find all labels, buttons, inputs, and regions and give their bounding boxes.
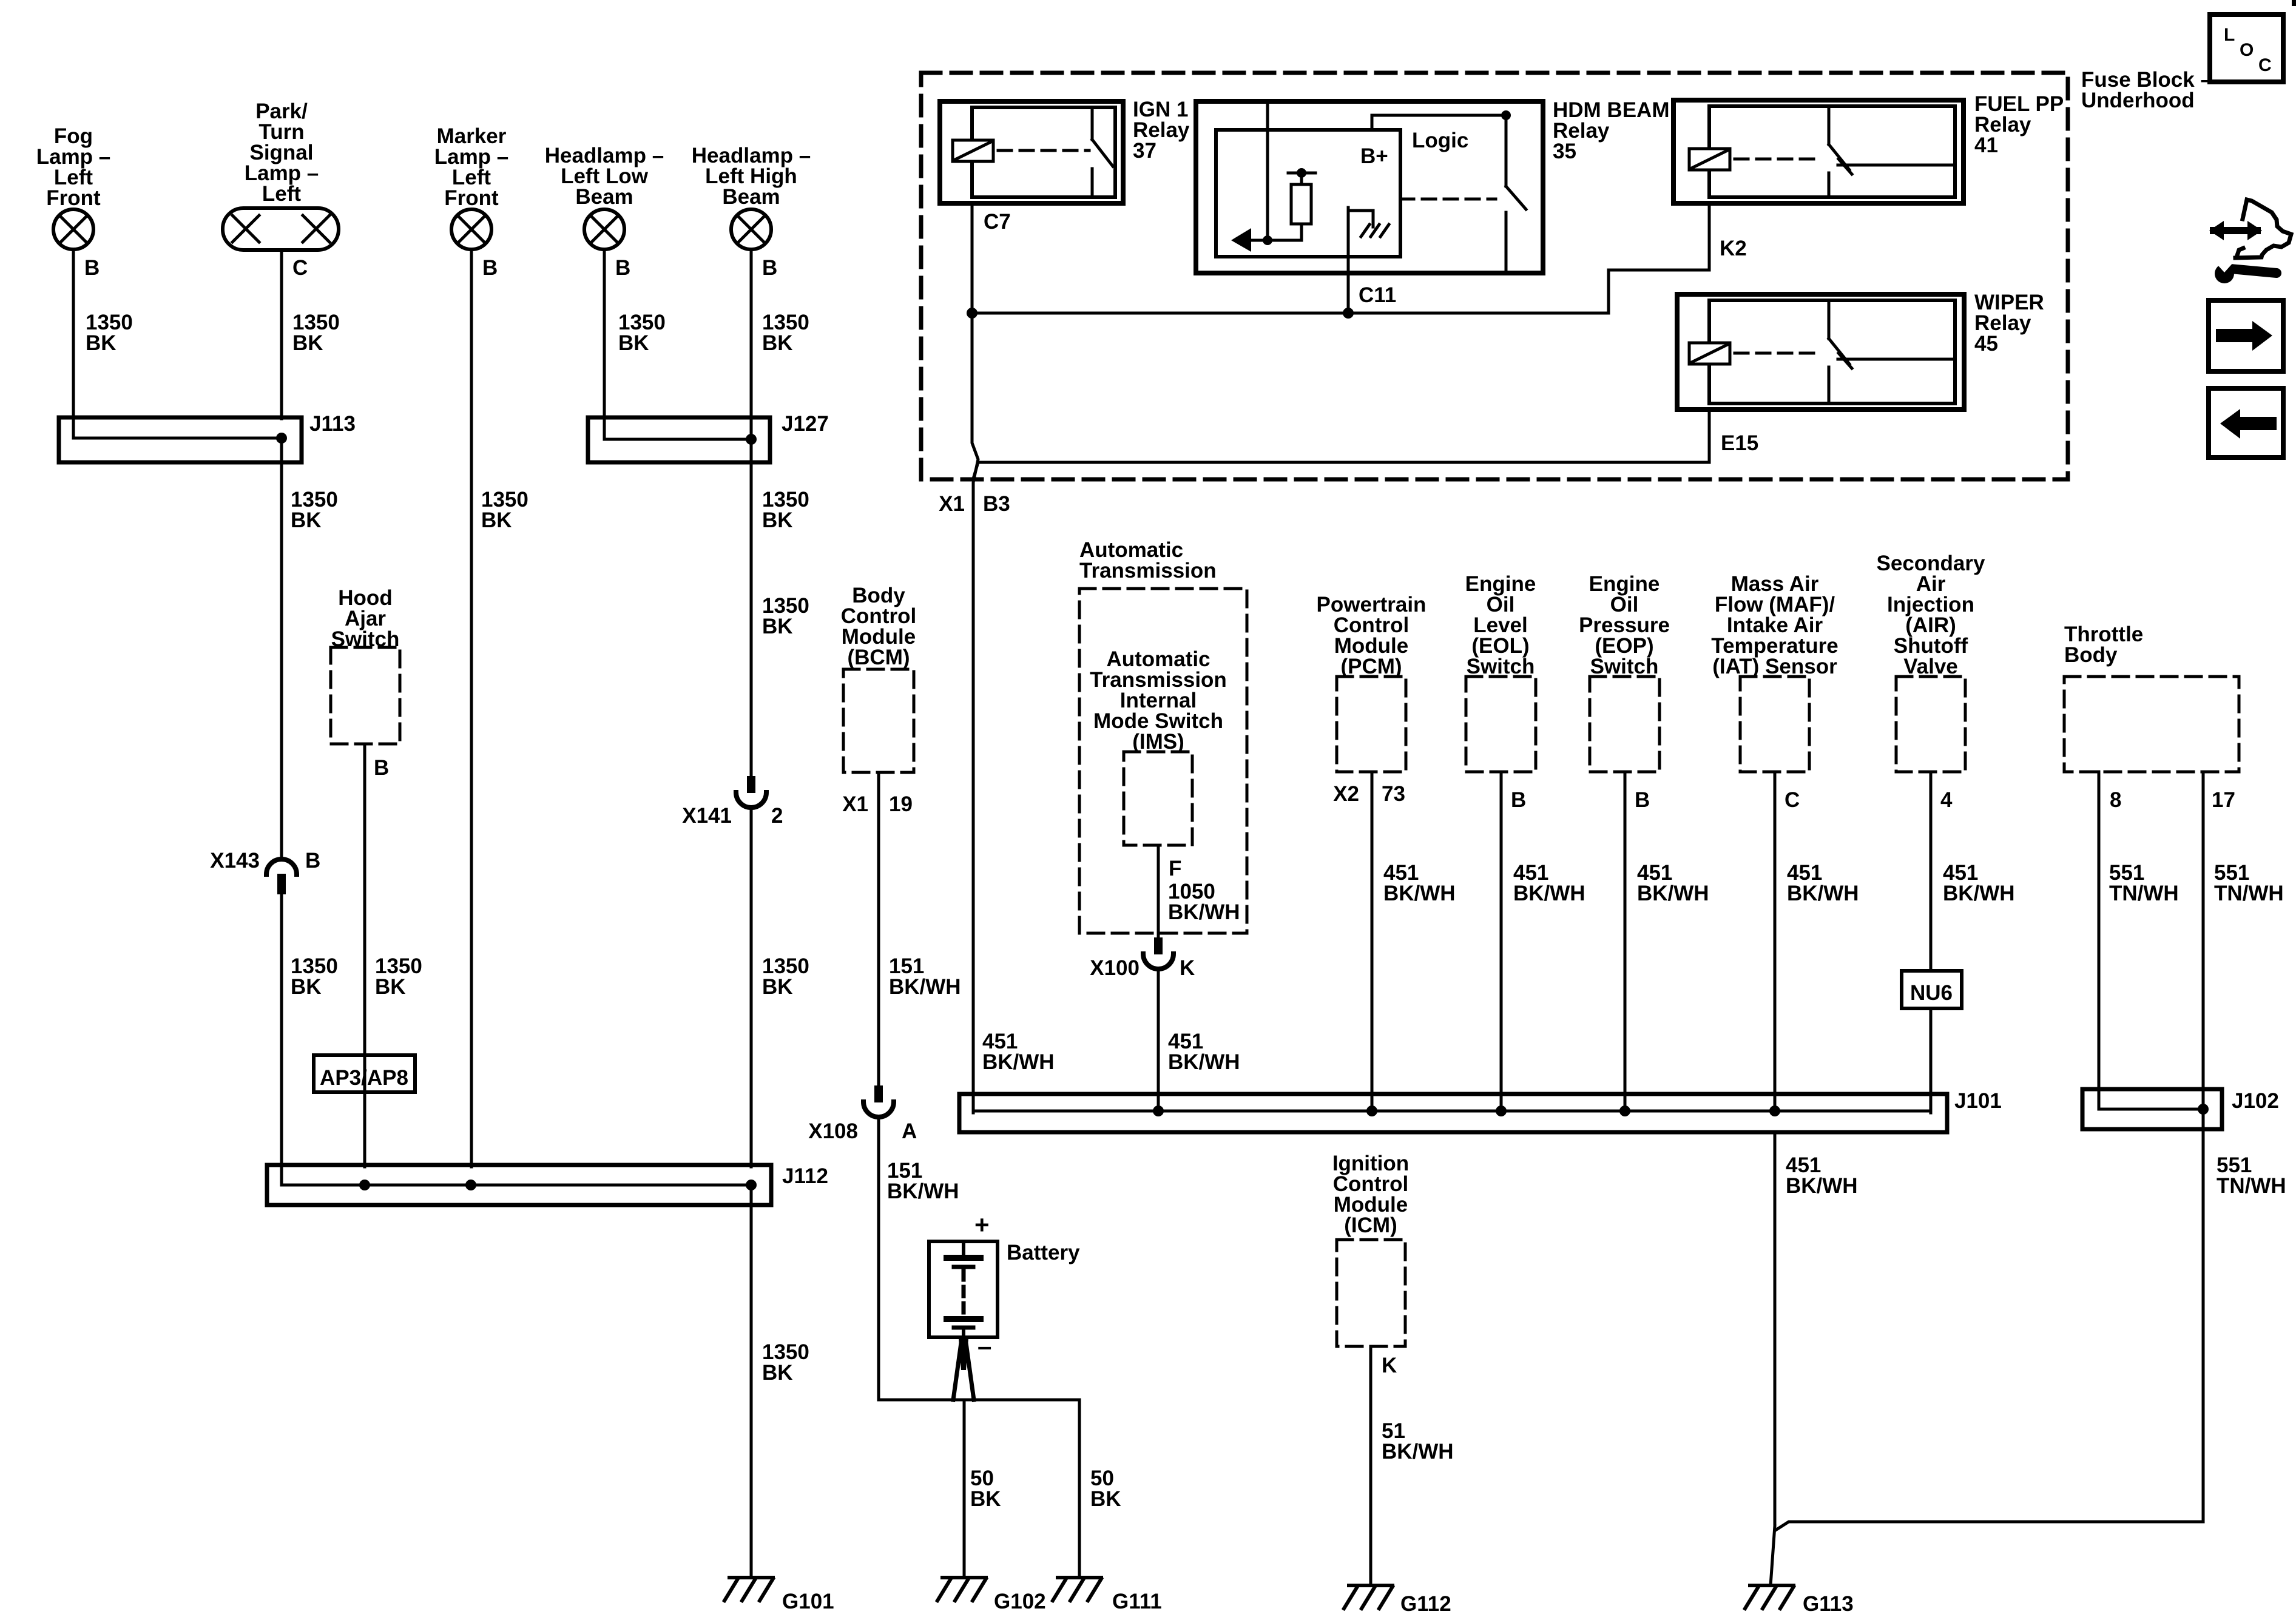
svg-text:G101: G101 <box>782 1590 834 1613</box>
wire 1350 BK fog lamp to J113 <box>72 249 75 419</box>
svg-text:J112: J112 <box>782 1164 828 1188</box>
label 451 BK/WH (EOL wire) <box>1513 861 1585 905</box>
junction dot in J127 <box>746 434 757 445</box>
label K2 <box>1720 237 1747 260</box>
wire 451 BK/WH EOL to J101 <box>1500 772 1503 1113</box>
label 50 BK (G102 wire) <box>970 1467 1001 1511</box>
automatic transmission dashed box <box>1079 589 1247 933</box>
label 1350 BK (high beam below J127) <box>762 594 809 638</box>
label 151 BK/WH (upper) <box>889 954 961 999</box>
pin C7 wire <box>971 203 974 313</box>
svg-text:J127: J127 <box>782 412 829 436</box>
svg-text:A: A <box>902 1119 917 1143</box>
splice pack J113 <box>59 417 302 462</box>
label 1050 BK/WH <box>1168 880 1240 924</box>
svg-text:F: F <box>1169 857 1181 880</box>
junction dot C7 bus <box>967 308 977 319</box>
label G101 <box>782 1590 834 1613</box>
label J102 <box>2232 1089 2279 1113</box>
svg-text:X143: X143 <box>210 849 260 873</box>
wire 151 BK/WH X108 to battery bus <box>879 1118 951 1400</box>
label 51 BK/WH <box>1382 1419 1454 1463</box>
label FUEL PP Relay 41 <box>1974 92 2064 157</box>
junction dot HDM35 switch top <box>1501 110 1511 120</box>
connector X108 <box>863 1085 894 1117</box>
forward arrow box <box>2209 300 2283 371</box>
label 1350 BK (hood ajar wire) <box>375 954 422 999</box>
pin B (EOL) <box>1511 788 1526 812</box>
resistor in HDM35 <box>1288 168 1315 240</box>
svg-text:B+: B+ <box>1360 144 1388 168</box>
svg-text:BodyControlModule(BCM): BodyControlModule(BCM) <box>841 584 916 669</box>
junction dot J101 EOP <box>1619 1106 1630 1116</box>
label C11 <box>1359 283 1396 307</box>
label E15 <box>1721 431 1758 455</box>
junction dot in J113 <box>276 433 287 444</box>
label 551 TN/WH (pin 17 wire) <box>2214 861 2284 905</box>
svg-text:B: B <box>615 256 630 280</box>
svg-text:B3: B3 <box>983 492 1010 516</box>
svg-text:EngineOilLevel(EOL)Switch: EngineOilLevel(EOL)Switch <box>1465 572 1536 678</box>
ground G111 <box>1053 1578 1101 1601</box>
connector X141 <box>736 776 766 808</box>
svg-text:19: 19 <box>889 792 913 816</box>
label 1350 BK (fog wire) <box>86 311 133 355</box>
pin K at X100 <box>1180 956 1195 980</box>
wire 451 BK/WH PCM to J101 <box>1371 772 1374 1113</box>
page corner mark <box>2292 0 2296 6</box>
pin B (EOP) <box>1635 788 1650 812</box>
lamp E2 Park/Turn Signal Lamp - Left <box>223 100 339 250</box>
relay WIPER45 coil dashed link <box>1735 352 1820 355</box>
wire 551 TN/WH pin8 to J102 <box>2098 772 2101 1091</box>
wire bus E15 to B3 <box>973 462 1709 479</box>
label B+ <box>1360 144 1388 168</box>
throttle body dashed box <box>2064 623 2239 772</box>
wire 50 BK to G102 <box>963 1400 966 1578</box>
svg-text:J101: J101 <box>1954 1089 2002 1113</box>
svg-text:B: B <box>762 256 777 280</box>
svg-text:17: 17 <box>2212 788 2235 812</box>
switch EOL dashed box <box>1465 572 1536 772</box>
wire 451 BK/WH NU6 to J101 <box>1930 1008 1933 1113</box>
splice pack J102 <box>2082 1089 2222 1129</box>
wire B3 exit segment <box>972 313 978 1113</box>
junction dot HDM35 internal <box>1263 235 1272 245</box>
label C7 <box>984 210 1011 234</box>
label 151 BK/WH (lower) <box>887 1159 959 1203</box>
wire 1350 BK low beam to J127 <box>603 249 606 419</box>
battery negative cable V <box>953 1338 974 1400</box>
splice pack J101 <box>959 1094 1947 1132</box>
label - (battery negative) <box>977 1332 991 1360</box>
label Fuse Block - Underhood <box>2081 68 2212 112</box>
junction dot J112 hood wire <box>359 1180 370 1190</box>
sensor MAF/IAT dashed box <box>1711 572 1838 772</box>
wire 151 BK/WH BCM to X108 <box>877 772 880 1085</box>
wire 1350 BK marker lamp to J112 <box>470 249 473 1167</box>
pin 17 (throttle body) <box>2212 788 2235 812</box>
relay HDM35 internal feed line <box>1266 101 1269 240</box>
svg-text:C7: C7 <box>984 210 1011 234</box>
relay IGN1 switch <box>1092 107 1113 197</box>
svg-text:B: B <box>84 256 100 280</box>
label 1350 BK (marker wire) <box>481 488 528 532</box>
pin K2 wire <box>1708 203 1711 270</box>
wire 1350 BK X141 to J112 <box>750 808 753 1167</box>
svg-text:Fuse Block –Underhood: Fuse Block –Underhood <box>2081 68 2212 112</box>
pin B of high beam <box>762 256 777 280</box>
wire 1350 BK high beam upper <box>750 249 753 776</box>
svg-text:G111: G111 <box>1112 1590 1162 1613</box>
valve AIR shutoff dashed box <box>1877 552 1985 772</box>
relay IGN 1 Relay 37 outline <box>940 101 1123 203</box>
svg-text:X141: X141 <box>682 804 732 828</box>
svg-text:K: K <box>1382 1354 1397 1377</box>
relay HDM35 internal arrow <box>1231 228 1301 252</box>
wire 451 BK/WH EOP to J101 <box>1624 772 1627 1113</box>
relay WIPER Relay 45 outline <box>1677 294 1964 410</box>
LOC legend box <box>2210 15 2283 82</box>
wire 551 TN/WH pin17 to J102 <box>2202 772 2205 1131</box>
wire 51 BK/WH ICM to G112 <box>1369 1346 1373 1585</box>
relay HDM35 switch <box>1506 115 1526 273</box>
label G111 <box>1112 1590 1162 1613</box>
junction dot J101 EOL <box>1496 1106 1507 1116</box>
svg-text:B: B <box>1511 788 1526 812</box>
label 1350 BK (below X143) <box>291 954 338 999</box>
label Automatic Transmission <box>1079 538 1217 582</box>
label G113 <box>1803 1592 1854 1616</box>
service icon hand with arrow and wrench <box>2209 200 2291 283</box>
relay IGN1 coil dashed link <box>998 149 1089 152</box>
label 451 BK/WH (below J101) <box>1786 1153 1858 1198</box>
svg-text:NU6: NU6 <box>1910 981 1953 1005</box>
svg-text:K: K <box>1180 956 1195 980</box>
junction dot J101 MAF <box>1769 1106 1780 1116</box>
connector X143 <box>266 859 297 894</box>
ground G102 <box>937 1578 986 1601</box>
label 1350 BK (low beam wire) <box>618 311 666 355</box>
label 451 BK/WH (B3 wire) <box>982 1030 1055 1074</box>
connector NU6 <box>1902 971 1962 1008</box>
svg-text:G112: G112 <box>1400 1592 1451 1616</box>
svg-text:73: 73 <box>1382 782 1405 806</box>
wire battery bus to G111 <box>951 1400 1079 1578</box>
wire 1350 BK park/turn lamp to J113 <box>280 250 283 419</box>
wire 1350 BK J113 to X143 <box>280 438 283 859</box>
switch IMS dashed box <box>1090 647 1227 845</box>
module PCM dashed box <box>1317 593 1427 772</box>
splice AP3/AP8 <box>314 1055 415 1092</box>
label J113 <box>309 412 356 436</box>
label Logic <box>1412 129 1468 152</box>
label X141 <box>682 804 732 828</box>
wire 1350 BK hood ajar switch to J112 <box>363 744 366 1167</box>
connector X100 <box>1143 937 1173 969</box>
pin K (ICM) <box>1382 1354 1397 1377</box>
svg-text:EngineOilPressure(EOP)Switch: EngineOilPressure(EOP)Switch <box>1579 572 1670 678</box>
lamp E5 Headlamp - Left High Beam <box>692 144 811 249</box>
label X1 (fuse block exit) <box>939 492 965 516</box>
wire 451 BK/WH J101 to G113 <box>1771 1132 1775 1585</box>
svg-text:X1: X1 <box>939 492 965 516</box>
fuse block - underhood dashed outline <box>921 73 2068 479</box>
svg-text:4: 4 <box>1940 788 1953 812</box>
relay HDM BEAM Relay 35 outline <box>1196 101 1543 273</box>
label X143 <box>210 849 260 873</box>
label 1350 BK (high beam wire, row1) <box>762 311 809 355</box>
svg-text:MarkerLamp –LeftFront: MarkerLamp –LeftFront <box>434 124 509 210</box>
label + (battery positive) <box>974 1210 990 1239</box>
ground G113 <box>1745 1585 1794 1609</box>
pin F wire (IMS) <box>1157 845 1160 937</box>
svg-text:L: L <box>2224 25 2235 45</box>
pin 2 at X141 <box>771 804 783 828</box>
pin C11 wire <box>1347 214 1350 313</box>
label 551 TN/WH (pin 8 wire) <box>2109 861 2179 905</box>
back arrow box <box>2209 388 2283 457</box>
svg-text:AP3/AP8: AP3/AP8 <box>320 1066 408 1090</box>
wire 451 BK/WH MAF to J101 <box>1774 772 1777 1113</box>
label IGN 1 Relay 37 <box>1133 98 1190 163</box>
switch S1 Hood Ajar Switch <box>331 586 400 744</box>
svg-text:2: 2 <box>771 804 783 828</box>
svg-text:B: B <box>1635 788 1650 812</box>
relay FUEL41 switch <box>1829 106 1955 197</box>
label B3 <box>983 492 1010 516</box>
svg-text:C: C <box>292 256 308 280</box>
wire bus C7 to C11 to K2 <box>972 270 1709 313</box>
svg-text:G102: G102 <box>994 1590 1046 1613</box>
junction dot J112 marker wire <box>465 1180 476 1190</box>
label 451 BK/WH (MAF wire) <box>1787 861 1859 905</box>
svg-text:C: C <box>1784 788 1800 812</box>
svg-text:J102: J102 <box>2232 1089 2279 1113</box>
svg-text:E15: E15 <box>1721 431 1758 455</box>
relay HDM35 control dashed line <box>1400 198 1496 201</box>
wire 1350 BK J112 to G101 <box>750 1185 753 1578</box>
module ICM dashed box <box>1332 1152 1409 1346</box>
label 1350 BK (to G101) <box>762 1340 809 1385</box>
relay FUEL41 coil dashed link <box>1735 158 1820 161</box>
svg-text:X108: X108 <box>808 1119 858 1143</box>
svg-text:+: + <box>974 1210 990 1239</box>
svg-text:G113: G113 <box>1803 1592 1854 1616</box>
label G112 <box>1400 1592 1451 1616</box>
junction dot J101 PCM <box>1366 1106 1377 1116</box>
pin label X1 19 (BCM) <box>842 792 913 816</box>
svg-text:X2: X2 <box>1333 782 1359 806</box>
label 1350 BK (below X141) <box>762 954 809 999</box>
junction dot J101 X100 <box>1153 1106 1164 1116</box>
svg-text:K2: K2 <box>1720 237 1747 260</box>
pin B of low beam <box>615 256 630 280</box>
svg-text:J113: J113 <box>309 412 356 436</box>
label X108 <box>808 1119 858 1143</box>
pin B of fog lamp <box>84 256 100 280</box>
label 451 BK/WH (AIR wire) <box>1943 861 2015 905</box>
relay IGN1 coil <box>953 140 993 161</box>
pin label X2 73 (PCM) <box>1333 782 1405 806</box>
wire 451 BK/WH X100 to J101 <box>1157 970 1160 1113</box>
relay HDM35 logic feed to switch <box>1372 115 1506 130</box>
svg-text:O: O <box>2240 40 2254 60</box>
battery B1 <box>929 1241 998 1337</box>
relay FUEL PP Relay 41 outline <box>1673 100 1963 203</box>
wire 551 TN/WH J102 to G113 <box>1775 1129 2203 1530</box>
relay HDM35 logic box <box>1216 130 1400 257</box>
relay WIPER45 coil <box>1689 343 1730 364</box>
ground G101 <box>724 1578 773 1601</box>
junction dot J112 high beam wire <box>746 1180 757 1190</box>
label 1350 BK (park wire) <box>292 311 340 355</box>
label 50 BK (G111 wire) <box>1090 1467 1121 1511</box>
lamp E3 Marker Lamp - Left Front <box>434 124 509 249</box>
label 451 BK/WH (X100 wire) <box>1168 1030 1240 1074</box>
label G102 <box>994 1590 1046 1613</box>
svg-text:Battery: Battery <box>1007 1241 1080 1264</box>
lamp E1 Fog Lamp - Left Front <box>36 124 111 249</box>
svg-text:B: B <box>374 756 389 780</box>
internal ground in HDM35 <box>1348 208 1389 237</box>
svg-text:–: – <box>977 1332 991 1360</box>
junction dot C11 bus <box>1343 308 1354 319</box>
pin B of marker lamp <box>482 256 498 280</box>
label J101 <box>1954 1089 2002 1113</box>
splice pack J127 <box>588 417 770 462</box>
label J127 <box>782 412 829 436</box>
lamp E4 Headlamp - Left Low Beam <box>545 144 664 249</box>
pin C of park/turn lamp <box>292 256 308 280</box>
label 451 BK/WH (PCM wire) <box>1383 861 1456 905</box>
pin C (MAF) <box>1784 788 1800 812</box>
label F <box>1169 857 1181 880</box>
label 551 TN/WH (below J102) <box>2217 1153 2286 1198</box>
label 1350 BK (high beam wire, row2) <box>762 488 809 532</box>
wire 1350 BK X143 to J112 <box>280 894 283 1167</box>
svg-text:B: B <box>305 849 320 873</box>
svg-text:Logic: Logic <box>1412 129 1468 152</box>
wire 451 BK/WH AIR upper <box>1930 772 1933 971</box>
ground G112 <box>1344 1585 1393 1609</box>
label 1350 BK (below J113) <box>291 488 338 532</box>
svg-text:C: C <box>2258 55 2272 75</box>
label Battery <box>1007 1241 1080 1264</box>
pin B of hood ajar switch <box>374 756 389 780</box>
svg-text:8: 8 <box>2110 788 2121 812</box>
svg-text:X1: X1 <box>842 792 868 816</box>
pin A at X108 <box>902 1119 917 1143</box>
pin 8 (throttle body) <box>2110 788 2121 812</box>
label X100 <box>1090 956 1140 980</box>
label J112 <box>782 1164 828 1188</box>
pin B at X143 <box>305 849 320 873</box>
relay FUEL41 coil <box>1689 149 1730 170</box>
switch EOP dashed box <box>1579 572 1670 772</box>
pin E15 wire <box>1708 410 1711 462</box>
pin 4 (AIR) <box>1940 788 1953 812</box>
label HDM BEAM Relay 35 <box>1553 98 1669 163</box>
relay WIPER45 switch <box>1829 300 1955 403</box>
svg-text:X100: X100 <box>1090 956 1140 980</box>
label 451 BK/WH (EOP wire) <box>1637 861 1709 905</box>
svg-text:C11: C11 <box>1359 283 1396 307</box>
junction dot J102 <box>2198 1104 2209 1115</box>
label WIPER Relay 45 <box>1974 291 2044 356</box>
splice pack J112 <box>267 1165 771 1205</box>
svg-text:B: B <box>482 256 498 280</box>
module BCM dashed box <box>841 584 916 772</box>
